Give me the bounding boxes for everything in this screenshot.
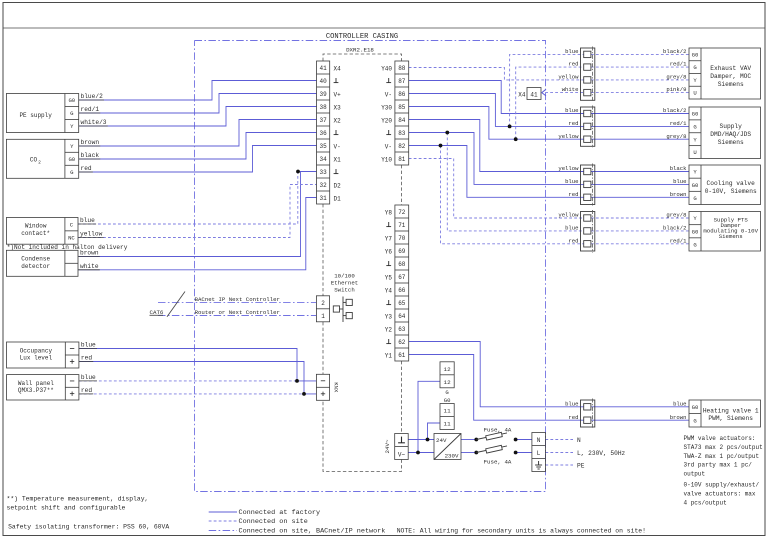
svg-text:0-10V supply/exhaust/: 0-10V supply/exhaust/ [684,482,760,489]
svg-text:brown: brown [81,139,100,146]
svg-text:Y: Y [70,123,74,130]
svg-text:blue: blue [565,225,578,232]
svg-text:black/2: black/2 [663,107,687,114]
svg-text:G0: G0 [68,97,75,104]
svg-text:QMX3.P37**: QMX3.P37** [18,387,54,394]
svg-text:blue: blue [80,217,95,224]
svg-text:blue: blue [673,178,686,185]
svg-text:V~: V~ [398,452,406,459]
svg-text:N: N [537,437,541,444]
svg-text:**) Temperature measurement, d: **) Temperature measurement, display, [7,496,149,503]
svg-text:NC: NC [68,235,75,242]
svg-text:G0: G0 [692,404,699,411]
svg-text:yellow: yellow [558,212,579,219]
svg-text:87: 87 [398,78,406,85]
svg-text:G: G [693,417,697,424]
svg-text:V-: V- [334,143,341,150]
svg-text:C: C [70,221,74,228]
svg-text:G: G [693,64,697,71]
svg-text:Cooling valve: Cooling valve [707,180,756,187]
svg-text:88: 88 [398,65,406,72]
svg-text:PWM, Siemens: PWM, Siemens [708,415,753,422]
svg-text:X4: X4 [518,91,526,98]
svg-text:12: 12 [444,366,452,373]
svg-text:72: 72 [398,209,406,216]
svg-text:X3: X3 [334,104,342,111]
svg-text:Y10: Y10 [381,156,392,163]
svg-text:1: 1 [321,313,325,320]
svg-text:Exhaust VAV: Exhaust VAV [710,65,751,72]
svg-text:Y4: Y4 [385,287,393,294]
svg-text:85: 85 [398,104,406,111]
svg-text:blue: blue [673,400,686,407]
svg-text:Wall panel: Wall panel [18,380,54,387]
svg-text:G: G [70,169,74,176]
svg-text:64: 64 [398,313,406,320]
svg-text:output: output [684,471,706,478]
svg-text:blue: blue [565,107,578,114]
svg-text:Connected on site, BACnet/IP n: Connected on site, BACnet/IP network [239,527,386,535]
svg-text:X2: X2 [334,117,342,124]
svg-text:white: white [80,263,99,270]
svg-text:V-: V- [385,143,392,150]
svg-text:red/1: red/1 [670,237,687,244]
svg-text:G0: G0 [68,156,75,163]
svg-text:38: 38 [319,104,327,111]
svg-text:39: 39 [319,91,327,98]
svg-text:grey/8: grey/8 [666,133,686,140]
svg-text:32: 32 [319,182,327,189]
svg-text:X1: X1 [334,156,342,163]
svg-text:70: 70 [398,235,406,242]
svg-text:G: G [693,123,697,130]
svg-text:detector: detector [21,263,50,270]
svg-text:red: red [568,191,578,198]
svg-text:65: 65 [398,300,406,307]
svg-text:36: 36 [319,130,327,137]
svg-text:34: 34 [319,156,327,163]
svg-text:Switch: Switch [334,286,354,293]
svg-text:G: G [693,242,697,249]
svg-text:D1: D1 [334,195,342,202]
svg-text:red: red [81,355,92,362]
svg-text:brown: brown [80,250,99,257]
svg-text:CO: CO [30,156,38,163]
svg-text:PWM valve actuators:: PWM valve actuators: [684,435,756,442]
svg-text:Lux level: Lux level [20,355,53,362]
svg-text:red: red [568,61,578,68]
svg-text:TWA-Z max 1 pc/output: TWA-Z max 1 pc/output [684,453,760,460]
svg-text:Heating valve 1: Heating valve 1 [703,408,759,415]
svg-text:Y: Y [693,136,697,143]
svg-text:Window: Window [25,223,47,230]
svg-text:BACnet IP Next Controller: BACnet IP Next Controller [195,296,280,303]
svg-text:G0: G0 [444,397,451,404]
svg-text:69: 69 [398,248,406,255]
svg-text:Y8: Y8 [385,209,393,216]
svg-text:N: N [577,437,581,444]
svg-text:yellow: yellow [558,74,579,81]
svg-text:blue: blue [565,178,578,185]
svg-text:62: 62 [398,339,406,346]
svg-text:*)Not included in halton deliv: *)Not included in halton delivery [7,244,128,251]
svg-text:black/2: black/2 [663,48,687,55]
svg-text:41: 41 [530,91,538,98]
svg-text:Siemens: Siemens [718,81,744,88]
svg-text:Y3: Y3 [385,313,393,320]
svg-text:V-: V- [385,91,392,98]
svg-text:PE: PE [577,463,585,470]
svg-text:G: G [445,389,449,396]
svg-text:valve actuators: max: valve actuators: max [684,490,756,497]
svg-text:X4: X4 [334,65,342,72]
svg-text:red: red [568,120,578,127]
svg-text:40: 40 [319,78,327,85]
svg-text:L: L [537,450,541,457]
svg-text:37: 37 [319,117,327,124]
svg-text:33: 33 [319,169,327,176]
svg-text:81: 81 [398,156,406,163]
svg-text:41: 41 [319,65,327,72]
svg-text:Connected at factory: Connected at factory [239,509,321,517]
svg-text:11: 11 [444,421,452,428]
svg-text:G0: G0 [692,182,699,189]
svg-text:red: red [568,414,578,421]
svg-text:brown: brown [670,191,687,198]
svg-text:11: 11 [444,408,452,415]
svg-text:Condense: Condense [21,256,50,263]
svg-text:63: 63 [398,326,406,333]
svg-text:10/100: 10/100 [334,272,355,279]
svg-text:grey/8: grey/8 [666,212,686,219]
svg-text:Router or Next Controller: Router or Next Controller [195,309,280,316]
svg-text:U: U [693,149,696,156]
svg-text:24V: 24V [436,437,447,444]
svg-text:contact*: contact* [21,230,50,237]
svg-text:pink/9: pink/9 [666,86,686,93]
svg-text:red: red [568,237,578,244]
svg-text:66: 66 [398,287,406,294]
svg-text:71: 71 [398,222,406,229]
svg-text:G0: G0 [692,51,699,58]
svg-text:2: 2 [38,160,41,165]
svg-text:red/1: red/1 [81,106,100,113]
svg-text:KNX: KNX [333,382,340,393]
svg-text:black: black [81,152,100,159]
svg-text:setpoint shift and configurabl: setpoint shift and configurable [7,505,126,512]
svg-text:PE supply: PE supply [19,112,52,119]
svg-text:blue: blue [81,342,96,349]
svg-text:G: G [70,110,74,117]
svg-text:red/1: red/1 [670,61,687,68]
svg-text:35: 35 [319,143,327,150]
svg-text:Y5: Y5 [385,274,393,281]
svg-text:yellow: yellow [80,231,103,238]
svg-text:yellow: yellow [558,133,579,140]
svg-text:Y20: Y20 [381,117,392,124]
svg-text:84: 84 [398,117,406,124]
svg-text:red: red [81,387,92,394]
svg-text:NOTE: All wiring for secondary: NOTE: All wiring for secondary units is … [397,527,646,534]
svg-text:68: 68 [398,261,406,268]
svg-text:Y1: Y1 [385,352,393,359]
svg-text:24V~: 24V~ [384,439,391,453]
svg-text:Y7: Y7 [385,235,393,242]
svg-text:D2: D2 [334,182,342,189]
svg-text:Y: Y [693,77,697,84]
svg-text:blue: blue [565,48,578,55]
svg-text:Y: Y [70,143,74,150]
svg-text:CAT6: CAT6 [150,309,164,316]
svg-text:brown: brown [670,414,687,421]
svg-text:DMD/HAQ/JDS: DMD/HAQ/JDS [710,131,751,138]
svg-text:grey/8: grey/8 [666,74,686,81]
svg-text:blue/2: blue/2 [81,93,104,100]
svg-text:230V: 230V [445,452,459,459]
svg-text:Occupancy: Occupancy [20,347,53,354]
svg-text:3rd party max 1 pc/: 3rd party max 1 pc/ [684,462,753,469]
svg-text:yellow: yellow [558,165,579,172]
svg-text:blue: blue [81,374,96,381]
svg-text:black/2: black/2 [663,225,687,232]
svg-text:83: 83 [398,130,406,137]
svg-text:blue: blue [565,400,578,407]
svg-text:black: black [670,165,687,172]
svg-text:white/3: white/3 [81,119,107,126]
svg-text:red/1: red/1 [670,120,687,127]
svg-text:0-10V, Siemens: 0-10V, Siemens [705,188,757,195]
svg-text:Siemens: Siemens [719,233,743,240]
svg-text:G0: G0 [692,228,699,235]
svg-text:31: 31 [319,195,327,202]
svg-text:Y: Y [693,169,697,176]
svg-text:Fuse, 4A: Fuse, 4A [484,427,512,434]
svg-text:12: 12 [444,379,452,386]
svg-text:Connected on site: Connected on site [239,518,308,526]
svg-text:Y30: Y30 [381,104,392,111]
svg-text:U: U [693,90,696,97]
svg-text:Damper, MOC: Damper, MOC [710,73,751,80]
svg-text:Safety isolating transformer:: Safety isolating transformer: PSS 60, 60… [8,523,169,530]
svg-text:Y: Y [693,215,697,222]
svg-text:white: white [562,86,579,93]
svg-text:STA73 max 2 pcs/output: STA73 max 2 pcs/output [684,444,763,451]
svg-text:Y40: Y40 [381,65,392,72]
svg-text:red: red [81,165,92,172]
svg-text:G: G [693,195,697,202]
svg-text:Y6: Y6 [385,248,393,255]
svg-text:V+: V+ [334,91,342,98]
svg-text:CONTROLLER CASING: CONTROLLER CASING [326,33,398,41]
svg-text:Supply: Supply [720,123,743,130]
svg-text:2: 2 [321,300,325,307]
svg-text:L, 230V, 50Hz: L, 230V, 50Hz [577,450,626,457]
svg-text:67: 67 [398,274,406,281]
svg-text:61: 61 [398,352,406,359]
svg-text:82: 82 [398,143,406,150]
svg-text:4 pcs/output: 4 pcs/output [684,499,727,506]
svg-text:Y2: Y2 [385,326,393,333]
svg-text:Fuse, 4A: Fuse, 4A [484,459,512,466]
svg-text:DXR2.E18: DXR2.E18 [346,47,374,54]
svg-text:Siemens: Siemens [718,139,744,146]
svg-text:86: 86 [398,91,406,98]
svg-text:G0: G0 [692,111,699,118]
svg-text:Ethernet: Ethernet [331,279,358,286]
